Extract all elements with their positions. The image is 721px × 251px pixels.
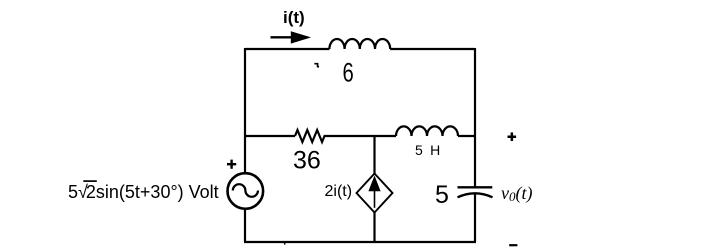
svg-text:36: 36 bbox=[293, 147, 321, 175]
svg-text:v0(t): v0(t) bbox=[501, 183, 533, 204]
svg-text:2i(t): 2i(t) bbox=[325, 183, 353, 200]
svg-text:6: 6 bbox=[343, 58, 354, 89]
svg-text:5: 5 bbox=[435, 181, 449, 209]
svg-text:i(t): i(t) bbox=[283, 8, 305, 27]
svg-text:5√2sin(5t+30°) Volt: 5√2sin(5t+30°) Volt bbox=[68, 182, 219, 202]
svg-text:5 H: 5 H bbox=[415, 142, 440, 158]
